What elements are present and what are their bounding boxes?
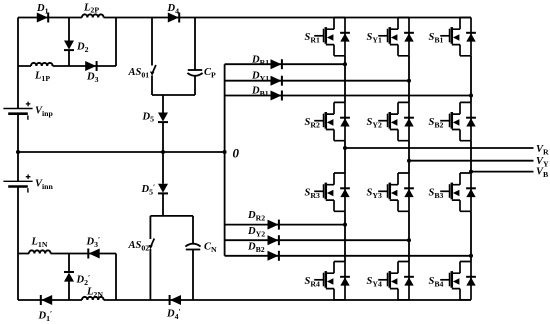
svg-text:D2′: D2′ [76, 273, 91, 287]
svg-text:D5′: D5′ [141, 182, 156, 196]
svg-text:0: 0 [233, 146, 240, 161]
svg-text:D3′: D3′ [86, 235, 101, 249]
svg-text:D4′: D4′ [166, 307, 181, 321]
svg-text:D1′: D1′ [38, 309, 53, 323]
